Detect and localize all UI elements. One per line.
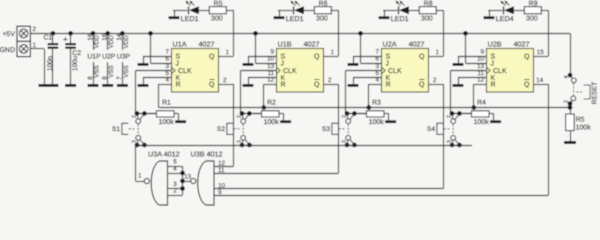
- svg-text:15: 15: [537, 49, 545, 56]
- svg-text:CLK: CLK: [283, 68, 297, 75]
- svg-text:8: 8: [87, 76, 94, 80]
- svg-text:U3A 4012: U3A 4012: [148, 150, 180, 159]
- svg-text:1: 1: [226, 49, 230, 56]
- svg-text:4: 4: [165, 77, 169, 84]
- svg-text:LED1: LED1: [391, 15, 409, 23]
- svg-text:11: 11: [218, 167, 225, 174]
- svg-text:VDD: VDD: [108, 35, 115, 49]
- svg-text:Q: Q: [209, 53, 215, 60]
- svg-text:4027: 4027: [514, 39, 530, 48]
- svg-text:3: 3: [132, 140, 138, 143]
- svg-text:2: 2: [237, 115, 243, 118]
- svg-text:12: 12: [477, 77, 485, 84]
- svg-text:U1B: U1B: [278, 39, 292, 48]
- svg-text:R9: R9: [529, 1, 538, 8]
- svg-text:9: 9: [480, 49, 484, 56]
- svg-text:R: R: [176, 81, 181, 88]
- svg-text:13: 13: [267, 63, 275, 70]
- svg-text:S: S: [281, 53, 286, 60]
- svg-text:12: 12: [218, 160, 226, 167]
- svg-text:U1P: U1P: [87, 54, 101, 61]
- svg-text:Q: Q: [419, 81, 425, 88]
- svg-text:4: 4: [375, 77, 379, 84]
- svg-text:J: J: [176, 60, 180, 67]
- svg-text:4: 4: [564, 75, 570, 78]
- svg-text:3: 3: [165, 63, 169, 70]
- svg-text:1: 1: [331, 49, 335, 56]
- svg-text:100n: 100n: [47, 56, 54, 71]
- svg-text:R8: R8: [424, 1, 433, 8]
- svg-text:J: J: [281, 60, 285, 67]
- svg-text:100u: 100u: [72, 56, 79, 71]
- svg-text:S1: S1: [112, 126, 120, 133]
- svg-text:9: 9: [270, 49, 274, 56]
- svg-text:100k: 100k: [576, 123, 592, 131]
- svg-text:2: 2: [564, 100, 570, 103]
- svg-text:6: 6: [165, 56, 169, 63]
- svg-text:9: 9: [218, 189, 222, 196]
- svg-text:R: R: [281, 81, 286, 88]
- svg-text:S: S: [491, 53, 496, 60]
- svg-text:300: 300: [421, 15, 433, 23]
- svg-text:U1A: U1A: [173, 39, 187, 48]
- svg-text:S2: S2: [217, 126, 225, 133]
- svg-text:R5: R5: [576, 116, 585, 123]
- svg-text:CLK: CLK: [178, 68, 192, 75]
- svg-text:100k: 100k: [264, 118, 280, 126]
- svg-text:Q: Q: [524, 53, 530, 60]
- svg-text:2: 2: [223, 77, 227, 84]
- svg-text:U2P: U2P: [102, 54, 116, 61]
- svg-text:13: 13: [184, 174, 192, 181]
- svg-text:10: 10: [267, 56, 275, 63]
- svg-text:R4: R4: [477, 99, 486, 106]
- svg-text:VSS: VSS: [123, 65, 130, 77]
- svg-text:Q: Q: [209, 81, 215, 88]
- svg-text:S3: S3: [322, 126, 330, 133]
- svg-text:300: 300: [526, 15, 538, 23]
- svg-text:S4: S4: [427, 126, 435, 133]
- svg-text:100k: 100k: [369, 118, 385, 126]
- svg-text:7: 7: [165, 49, 169, 56]
- svg-text:5: 5: [173, 159, 177, 166]
- svg-text:13: 13: [477, 63, 485, 70]
- svg-text:R3: R3: [372, 99, 381, 106]
- svg-text:7: 7: [375, 49, 379, 56]
- svg-text:4027: 4027: [409, 39, 425, 48]
- svg-text:U3P: U3P: [117, 54, 131, 61]
- svg-text:R2: R2: [267, 99, 276, 106]
- svg-text:VSS: VSS: [108, 65, 115, 77]
- svg-text:10: 10: [477, 56, 485, 63]
- svg-text:2: 2: [342, 115, 348, 118]
- svg-text:R6: R6: [319, 1, 328, 8]
- svg-text:2: 2: [173, 188, 177, 195]
- svg-text:VSS: VSS: [93, 65, 100, 77]
- svg-text:7: 7: [116, 76, 123, 80]
- svg-text:R1: R1: [162, 99, 171, 106]
- svg-text:Q: Q: [524, 81, 530, 88]
- svg-text:1: 1: [138, 173, 142, 180]
- svg-text:VDD: VDD: [93, 35, 100, 49]
- svg-text:4: 4: [173, 166, 177, 173]
- svg-text:4027: 4027: [199, 39, 215, 48]
- svg-text:6: 6: [375, 56, 379, 63]
- svg-text:4027: 4027: [304, 39, 320, 48]
- svg-text:3: 3: [447, 140, 453, 143]
- svg-text:CLK: CLK: [388, 68, 402, 75]
- svg-text:2: 2: [433, 77, 437, 84]
- svg-text:C1: C1: [44, 35, 53, 42]
- svg-text:2: 2: [132, 115, 138, 118]
- svg-text:R: R: [491, 81, 496, 88]
- svg-text:RESET: RESET: [592, 82, 599, 105]
- svg-text:LED4: LED4: [496, 15, 514, 23]
- svg-text:+5V: +5V: [2, 31, 15, 38]
- svg-text:LED1: LED1: [181, 15, 199, 23]
- svg-text:S: S: [386, 53, 391, 60]
- svg-text:3: 3: [237, 140, 243, 143]
- svg-text:1: 1: [33, 42, 37, 49]
- svg-text:J: J: [386, 60, 390, 67]
- svg-text:VDD: VDD: [123, 35, 130, 49]
- svg-text:2: 2: [328, 77, 332, 84]
- svg-text:100k: 100k: [159, 118, 175, 126]
- svg-text:U2B: U2B: [488, 39, 502, 48]
- svg-text:GND: GND: [0, 47, 15, 54]
- svg-text:12: 12: [267, 77, 275, 84]
- svg-text:J: J: [491, 60, 495, 67]
- svg-text:300: 300: [211, 15, 223, 23]
- svg-text:1: 1: [436, 49, 440, 56]
- svg-text:Q: Q: [419, 53, 425, 60]
- svg-text:3: 3: [342, 140, 348, 143]
- svg-text:LED1: LED1: [286, 15, 304, 23]
- svg-text:CLK: CLK: [493, 68, 507, 75]
- svg-text:Q: Q: [314, 81, 320, 88]
- svg-text:U2A: U2A: [383, 39, 397, 48]
- svg-text:Q: Q: [314, 53, 320, 60]
- svg-text:300: 300: [316, 15, 328, 23]
- svg-text:100k: 100k: [474, 118, 490, 126]
- svg-text:R5: R5: [214, 1, 223, 8]
- svg-text:U3B 4012: U3B 4012: [191, 150, 223, 159]
- svg-text:R: R: [386, 81, 391, 88]
- svg-text:3: 3: [375, 63, 379, 70]
- svg-text:2: 2: [33, 26, 37, 33]
- svg-text:S: S: [176, 53, 181, 60]
- svg-text:8: 8: [102, 76, 109, 80]
- svg-text:14: 14: [536, 77, 544, 84]
- svg-text:2: 2: [447, 115, 453, 118]
